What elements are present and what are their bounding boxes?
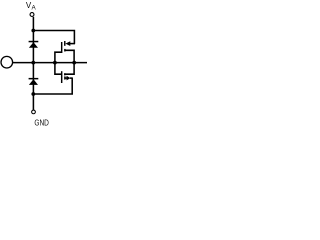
- svg-text:GND: GND: [34, 118, 49, 128]
